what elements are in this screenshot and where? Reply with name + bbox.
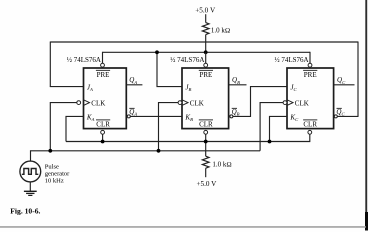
U3 CLK bubble [283, 101, 287, 105]
svg-text:10 kHz: 10 kHz [45, 178, 64, 185]
wire QC-bar to right feedback vertical [337, 115, 358, 117]
page right border [365, 0, 367, 231]
wire KA input [66, 116, 84, 141]
node QC-bar label [336, 108, 345, 117]
wire R2 to +5V [205, 168, 207, 177]
U1 PRE bubble [101, 63, 105, 67]
U2 CLR pin label [199, 120, 213, 129]
U3 CLR pin label [303, 120, 317, 129]
node QB-bar label [232, 108, 240, 117]
U3 CLR bubble [308, 130, 312, 134]
junction dot JB on PRE rail [155, 50, 159, 54]
wire U2 CLK input [159, 103, 179, 151]
svg-text:CLK: CLK [91, 99, 105, 107]
U2 PRE bubble [204, 63, 208, 67]
junction dot pull-up on PRE rail [204, 50, 208, 54]
svg-text:+5.0 V: +5.0 V [196, 180, 217, 188]
wire U2 CLR to pulldown resistor [205, 134, 207, 156]
wire pulse generator to ground [29, 182, 31, 191]
U1 CLR pin label [96, 120, 110, 129]
U3 PRE bubble [308, 63, 312, 67]
U1 QA-bar output bubble [127, 115, 130, 118]
U3 CLK edge triangle [287, 100, 293, 106]
pulse generator label [45, 164, 70, 185]
wire U1 CLK input [50, 103, 77, 151]
svg-text:+5.0 V: +5.0 V [195, 7, 216, 15]
svg-text:Fig. 10-6.: Fig. 10-6. [10, 207, 40, 216]
U3 PRE pin label [303, 70, 317, 79]
resistor R1 [202, 23, 209, 35]
svg-text:CLK: CLK [190, 99, 204, 107]
wire left feedback vertical [49, 42, 51, 87]
wire U3 CLK input [260, 103, 283, 151]
wire QA-bar to KB [130, 115, 182, 117]
U2 PRE pin label [199, 70, 213, 79]
flip-flop U3 box [287, 68, 334, 129]
node QA-bar label [129, 108, 137, 117]
junction dot U2 CLK on rail [157, 149, 161, 153]
wire U3 PRE to rail [309, 52, 311, 64]
wire pulse generator to CLK rail [30, 150, 32, 161]
flip-flop U2 box [182, 68, 229, 129]
svg-text:1.0 kΩ: 1.0 kΩ [212, 160, 231, 168]
svg-text:CLR: CLR [199, 121, 213, 129]
pulse generator waveform symbol [22, 169, 39, 175]
wire U1 CLR to rail [102, 134, 104, 141]
U1 CLK bubble [77, 101, 81, 105]
junction dot KC on rail [268, 140, 272, 144]
wire QB-bar to JC [233, 87, 287, 117]
U1 PRE pin label [96, 70, 110, 79]
svg-text:Pulse: Pulse [45, 164, 59, 171]
U1 CLK edge triangle [84, 100, 90, 106]
page right border lower dark segment [365, 212, 368, 231]
U2 CLK bubble [178, 101, 182, 105]
page bottom rule [0, 226, 366, 228]
U2 CLR bubble [204, 130, 208, 134]
svg-text:CLR: CLR [96, 121, 110, 129]
svg-text:½ 74LS76A: ½ 74LS76A [67, 56, 101, 64]
svg-text:CLK: CLK [295, 99, 309, 107]
junction dot U1 CLR on rail [101, 140, 105, 144]
wire U1 PRE to rail [102, 52, 104, 64]
junction dot U2 CLR on rail [204, 140, 208, 144]
wire CLK rail [31, 150, 261, 152]
ground [24, 191, 37, 195]
pulse generator source [20, 161, 41, 182]
wire QB stub [229, 84, 247, 86]
svg-text:CLR: CLR [303, 121, 317, 129]
wire right feedback vertical [357, 42, 359, 117]
wire JA input [50, 86, 84, 88]
svg-text:½ 74LS76A: ½ 74LS76A [170, 56, 204, 64]
wire CLR rail [66, 141, 310, 143]
svg-text:½ 74LS76A: ½ 74LS76A [274, 56, 308, 64]
svg-text:generator: generator [45, 171, 70, 178]
junction dot U1 CLK on rail [48, 149, 52, 153]
U3 QC-bar output bubble [334, 115, 337, 118]
wire QC stub [334, 84, 355, 86]
svg-text:PRE: PRE [97, 71, 110, 79]
wire KC input [270, 116, 288, 141]
wire QA stub [126, 84, 142, 86]
svg-text:1.0 kΩ: 1.0 kΩ [211, 27, 230, 35]
svg-text:PRE: PRE [304, 71, 317, 79]
U1 CLR bubble [101, 130, 105, 134]
U2 CLK edge triangle [182, 100, 188, 106]
U2 QB-bar output bubble [230, 115, 233, 118]
wire top feedback rail (QC-bar to JA net) [50, 41, 358, 43]
svg-text:PRE: PRE [199, 71, 212, 79]
flip-flop U1 box [84, 68, 127, 129]
wire PRE rail [103, 51, 311, 53]
resistor R2 [202, 156, 209, 168]
wire JB to PRE rail [157, 52, 182, 86]
wire rail to U2 PRE bubble [205, 52, 207, 63]
wire R1 down to PRE rail [205, 35, 207, 53]
wire U3 CLR to rail [309, 134, 311, 141]
wire +5V to R1 [205, 14, 207, 22]
